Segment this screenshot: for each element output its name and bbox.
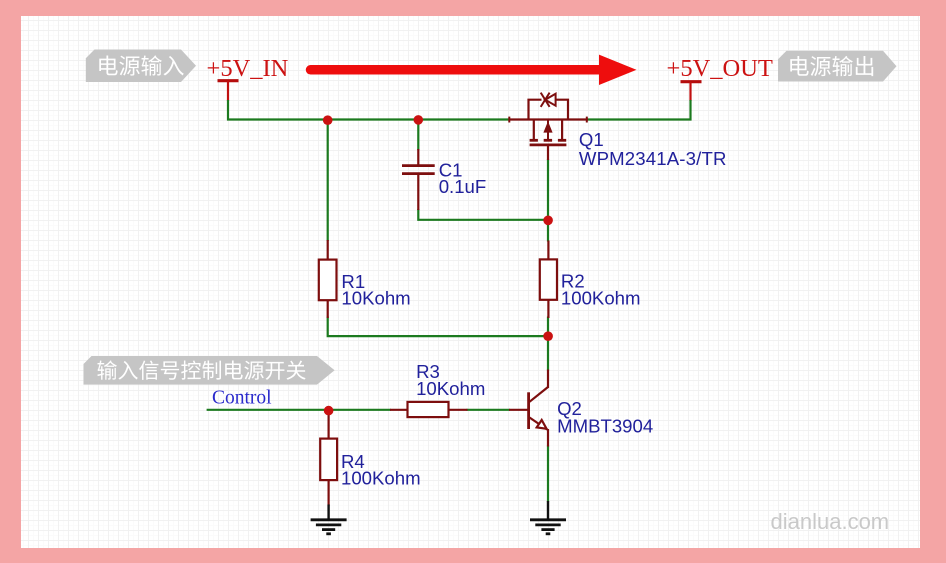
power flow arrow (311, 55, 637, 85)
junction node C1/R2/gate (543, 216, 553, 226)
svg-text:100Kohm: 100Kohm (561, 288, 641, 309)
port pin +5V_IN (218, 81, 239, 101)
svg-text:10Kohm: 10Kohm (341, 287, 410, 308)
wire R2 bottom (547, 317, 549, 338)
svg-text:0.1uF: 0.1uF (439, 176, 487, 197)
svg-text:WPM2341A-3/TR: WPM2341A-3/TR (579, 148, 727, 169)
wire Control (207, 409, 391, 411)
wire top bus left (227, 118, 510, 120)
transistor Q2 (509, 370, 653, 447)
callout banner 电源输入 (86, 50, 196, 83)
svg-text:+5V_OUT: +5V_OUT (667, 55, 773, 82)
wire Q2 emitter down (547, 446, 549, 503)
wire +5V_IN drop (227, 100, 229, 121)
wire C1 top branch (417, 120, 419, 151)
wire R3 to Q2 base (467, 409, 510, 411)
wire node to Q2 collector (547, 335, 549, 371)
wire R1 top branch (327, 120, 329, 242)
wire node to R2 top (547, 219, 549, 242)
capacitor C1 (402, 149, 486, 210)
ground (Q2 emitter) (530, 501, 566, 534)
port pin +5V_OUT (681, 82, 702, 101)
svg-text:MMBT3904: MMBT3904 (557, 416, 653, 437)
wire top bus right (587, 118, 692, 120)
junction node Control/R4 (324, 406, 334, 416)
resistor R3 (390, 361, 485, 417)
resistor R2 (540, 241, 641, 319)
mosfet Q1 (509, 93, 727, 169)
junction node R1/top bus (323, 115, 333, 125)
callout banner 输入信号控制电源开关 (84, 356, 335, 385)
junction node R1/R2/collector (543, 331, 553, 341)
wire C1 bottom to node (418, 209, 548, 220)
svg-text:10Kohm: 10Kohm (416, 378, 485, 399)
svg-text:100Kohm: 100Kohm (341, 467, 421, 488)
wire R1 bottom and bottom bus (328, 317, 548, 337)
svg-text:Control: Control (212, 388, 272, 409)
junction node C1/top bus (414, 115, 424, 125)
svg-text:dianlua.com: dianlua.com (771, 509, 890, 534)
resistor R4 (320, 409, 420, 506)
svg-text:+5V_IN: +5V_IN (207, 55, 289, 82)
ground (R4) (311, 505, 347, 534)
resistor R1 (319, 240, 411, 318)
callout banner 电源输出 (778, 51, 897, 82)
wire Q1 gate to node (547, 159, 549, 221)
wire +5V_OUT drop (689, 100, 691, 121)
